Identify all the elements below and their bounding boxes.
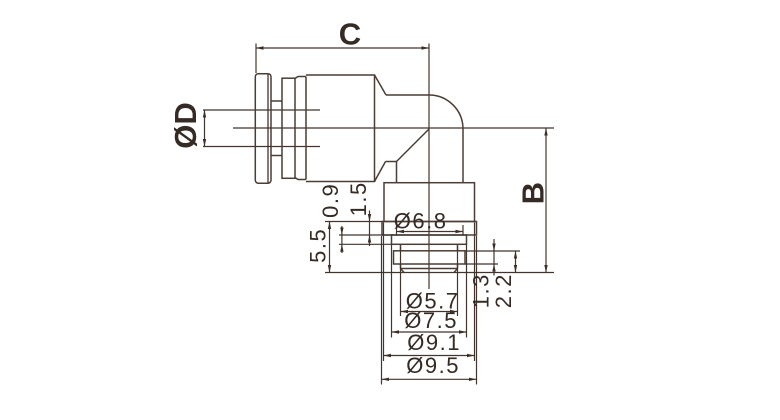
svg-text:B: B <box>515 182 550 204</box>
svg-text:C: C <box>339 17 361 52</box>
svg-text:ØD: ØD <box>168 102 203 149</box>
svg-text:1.5: 1.5 <box>346 181 371 216</box>
svg-text:Ø9.5: Ø9.5 <box>406 353 460 378</box>
svg-text:1.3: 1.3 <box>469 273 494 308</box>
svg-text:5.5: 5.5 <box>306 228 331 263</box>
svg-text:0.9: 0.9 <box>318 183 343 218</box>
svg-text:2.2: 2.2 <box>491 273 516 308</box>
svg-text:Ø9.1: Ø9.1 <box>407 330 461 355</box>
svg-text:Ø6.8: Ø6.8 <box>394 208 448 233</box>
